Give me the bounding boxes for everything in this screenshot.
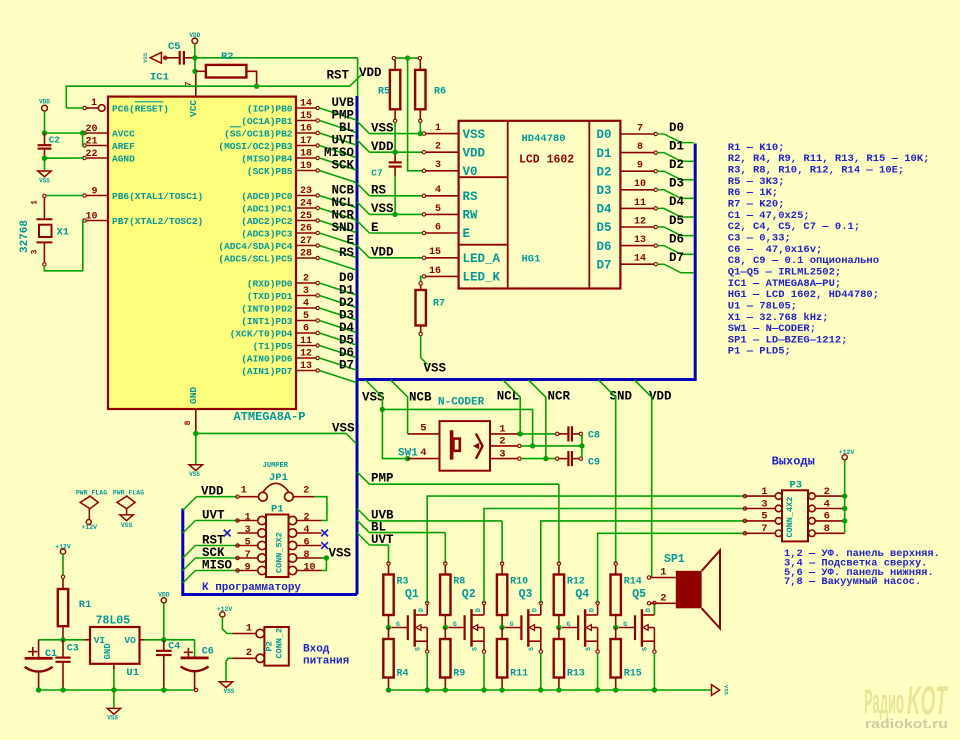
svg-text:GND: GND xyxy=(103,643,113,660)
svg-text:Выходы: Выходы xyxy=(772,454,815,468)
svg-text:(MOSI/OC2)PB3: (MOSI/OC2)PB3 xyxy=(218,141,292,152)
legend outputs text xyxy=(784,548,940,588)
svg-text:NCB: NCB xyxy=(409,391,432,405)
LCD right pin names D0-D7 xyxy=(597,128,613,272)
svg-text:D6: D6 xyxy=(597,240,612,254)
svg-text:R2, R4, R9, R11, R13, R15 — 10: R2, R4, R9, R11, R13, R15 — 10K; xyxy=(728,153,930,165)
svg-text:VSS: VSS xyxy=(371,121,394,135)
svg-text:D1: D1 xyxy=(597,147,612,161)
watermark RadioKOT xyxy=(864,679,949,731)
svg-text:(AIN0)PD6: (AIN0)PD6 xyxy=(241,353,293,364)
svg-text:(ICP)PB0: (ICP)PB0 xyxy=(247,103,293,114)
resistor R14 xyxy=(611,562,642,628)
svg-text:23: 23 xyxy=(300,186,312,197)
no-connect cross P1 pin3 xyxy=(224,530,231,537)
pin 17 stub and wire to label UVT xyxy=(296,136,356,158)
svg-text:(XCK/T0)PD4: (XCK/T0)PD4 xyxy=(230,328,293,339)
svg-text:D3: D3 xyxy=(597,184,612,198)
svg-text:4: 4 xyxy=(420,447,426,459)
svg-text:7: 7 xyxy=(245,550,251,561)
svg-text:9: 9 xyxy=(91,186,97,197)
P3 pin 4 right xyxy=(809,498,845,512)
svg-text:1: 1 xyxy=(761,486,767,498)
wire NCB to SW1 pin5 xyxy=(391,380,408,434)
svg-text:VSS: VSS xyxy=(463,128,486,142)
resistor R12 xyxy=(554,562,585,628)
jumper JP1 xyxy=(236,483,314,501)
svg-text:PWR_FLAG: PWR_FLAG xyxy=(113,490,144,497)
svg-text:N-CODER: N-CODER xyxy=(438,397,485,409)
svg-text:12: 12 xyxy=(300,348,312,359)
svg-text:G: G xyxy=(396,621,400,628)
svg-text:10: 10 xyxy=(634,179,646,190)
svg-text:32768: 32768 xyxy=(19,220,31,253)
svg-text:3: 3 xyxy=(303,286,309,297)
svg-text:D4: D4 xyxy=(597,203,613,217)
wire to ground below MCU xyxy=(195,433,197,464)
svg-text:D7: D7 xyxy=(669,251,684,265)
svg-text:9: 9 xyxy=(637,161,643,172)
svg-text:2: 2 xyxy=(303,486,309,497)
svg-text:VSS: VSS xyxy=(107,715,118,722)
wire VSS to SW1 pin2 row xyxy=(382,409,532,446)
wire SW1 pin1 to C8 xyxy=(521,433,556,435)
resistor R5 xyxy=(378,56,400,122)
svg-text:ATMEGA8A-P: ATMEGA8A-P xyxy=(234,410,306,424)
resistor R15 xyxy=(611,628,642,691)
svg-text:VSS: VSS xyxy=(329,546,352,560)
node gate junction Q3 xyxy=(499,625,504,630)
P1 pin 2 right xyxy=(288,512,321,524)
svg-text:VSS: VSS xyxy=(362,391,385,405)
svg-text:C4: C4 xyxy=(168,642,180,653)
svg-text:6: 6 xyxy=(304,537,310,548)
transistor Q1 xyxy=(392,588,429,653)
svg-text:Q1: Q1 xyxy=(405,588,419,601)
svg-text:CONN_5X2: CONN_5X2 xyxy=(275,532,285,573)
pin 4 stub and wire to label D2 xyxy=(296,298,356,320)
junction dots power rail xyxy=(36,687,167,692)
svg-text:PWR_FLAG: PWR_FLAG xyxy=(76,490,107,497)
wire V0 divider top rail xyxy=(395,57,418,59)
svg-text:RST: RST xyxy=(326,69,349,83)
svg-text:4: 4 xyxy=(303,298,309,309)
svg-text:VSS: VSS xyxy=(142,52,149,63)
wire +12V to R1 xyxy=(62,554,64,575)
svg-text:D0: D0 xyxy=(597,128,612,142)
SW1 pin 4 xyxy=(405,447,440,461)
wire MISO to P1 xyxy=(183,569,239,583)
P1 pin 10 right xyxy=(288,562,321,574)
pin 9 PB6 stub xyxy=(83,194,86,197)
svg-text:7,8 — Вакуумный насос.: 7,8 — Вакуумный насос. xyxy=(784,576,921,588)
svg-text:21: 21 xyxy=(85,136,97,147)
svg-text:VDD: VDD xyxy=(371,140,394,154)
svg-text:14: 14 xyxy=(300,98,312,109)
P2 pin 1 xyxy=(233,622,265,637)
resistor R9 xyxy=(440,628,465,691)
svg-text:LED_K: LED_K xyxy=(463,271,501,285)
svg-text:C3: C3 xyxy=(67,643,79,654)
ground VSS below P2 xyxy=(219,682,232,688)
svg-text:(ADC2)PC2: (ADC2)PC2 xyxy=(241,216,293,227)
svg-text:C8: C8 xyxy=(588,431,600,442)
svg-text:D: D xyxy=(588,608,595,612)
svg-text:MISO: MISO xyxy=(202,559,233,573)
capacitor C7 xyxy=(371,152,401,178)
pin 23 stub and wire to label NCB xyxy=(296,186,356,208)
P3 pin 3 left xyxy=(743,498,782,512)
svg-text:PB7(XTAL2/TOSC2): PB7(XTAL2/TOSC2) xyxy=(112,216,203,227)
wire to pin22 xyxy=(45,157,85,159)
svg-text:JUMPER: JUMPER xyxy=(263,462,289,470)
svg-text:(RXD)PD0: (RXD)PD0 xyxy=(247,278,293,289)
svg-text:V0: V0 xyxy=(463,165,478,179)
blue sheet box around N-CODER section xyxy=(357,144,695,380)
ground VSS below MCU xyxy=(189,465,202,471)
wire VDD symbol down xyxy=(163,603,165,640)
junction dots source rail xyxy=(386,687,657,692)
svg-text:R7 — K20;: R7 — K20; xyxy=(728,198,785,210)
svg-text:HD44780: HD44780 xyxy=(522,133,566,145)
LCD pin 14 stub and wire to label D7 xyxy=(620,254,693,273)
svg-text:16: 16 xyxy=(429,266,441,277)
pin 16 stub and wire to label BL xyxy=(296,123,356,145)
svg-text:VSS: VSS xyxy=(121,522,133,529)
svg-text:R13: R13 xyxy=(567,669,585,680)
svg-text:PC6(RESET): PC6(RESET) xyxy=(112,103,169,114)
svg-text:C9: C9 xyxy=(588,458,600,469)
wire to pin21 xyxy=(83,133,85,146)
pin 24 stub and wire to label NCL xyxy=(296,198,356,220)
svg-text:NCL: NCL xyxy=(497,389,520,403)
svg-text:6: 6 xyxy=(303,323,309,334)
svg-text:HG1 — LCD 1602, HD44780;: HG1 — LCD 1602, HD44780; xyxy=(728,289,879,301)
capacitor C2 xyxy=(38,133,61,158)
no-connect cross P1 pin6 xyxy=(321,542,328,549)
LCD pin 8 stub and wire to label D1 xyxy=(620,142,693,161)
node R1-C3-VI junction xyxy=(60,637,65,642)
node C7-VSS junction xyxy=(392,212,397,217)
svg-text:C2: C2 xyxy=(49,135,61,146)
svg-text:RS: RS xyxy=(463,190,479,204)
LCD pin 6 wire/label xyxy=(357,221,459,235)
power flag PWR_FLAG VSS xyxy=(113,490,144,530)
wire SW1 pin2 to caps xyxy=(521,445,581,447)
svg-text:SP1 — LD—BZEG—1212;: SP1 — LD—BZEG—1212; xyxy=(728,334,848,346)
svg-text:VSS: VSS xyxy=(224,688,235,695)
svg-text:14: 14 xyxy=(634,254,646,265)
encoder SW1 body xyxy=(440,421,491,471)
crystal X1 xyxy=(19,194,69,266)
svg-text:Q1—Q5 — IRLML2502;: Q1—Q5 — IRLML2502; xyxy=(728,266,841,278)
svg-text:IC1: IC1 xyxy=(150,72,169,84)
resistor R6 xyxy=(415,56,446,122)
svg-text:D2: D2 xyxy=(597,165,612,179)
svg-text:AREF: AREF xyxy=(112,141,135,152)
wire drain Q3 to P3 pin5 xyxy=(541,521,745,603)
svg-text:R12: R12 xyxy=(567,577,585,588)
SP1 pin 1 xyxy=(647,567,676,580)
transistor Q2 xyxy=(448,588,485,653)
net flag VSS arrow at C5 xyxy=(150,52,161,63)
svg-text:VCC: VCC xyxy=(188,100,199,117)
wire JP1 pin2 to P1 pin2 xyxy=(314,497,327,521)
P1 pin 7 left xyxy=(238,550,267,562)
pin 18 stub and wire to label MISO xyxy=(296,148,356,170)
svg-text:R4: R4 xyxy=(397,669,409,680)
svg-text:VSS: VSS xyxy=(189,471,200,478)
svg-text:S: S xyxy=(471,647,478,651)
svg-text:C6 — 47,0x16v;: C6 — 47,0x16v; xyxy=(728,244,823,256)
svg-text:2: 2 xyxy=(824,486,830,498)
pin 11 stub and wire to label D5 xyxy=(296,336,356,358)
svg-text:VO: VO xyxy=(124,635,136,646)
svg-text:D1: D1 xyxy=(669,139,684,153)
wire VSS below MCU xyxy=(196,432,346,434)
svg-text:7: 7 xyxy=(637,123,643,134)
wire RST net xyxy=(66,86,350,108)
wire R7 to VSS label xyxy=(420,335,422,357)
svg-text:(ADC4/SDA)PC4: (ADC4/SDA)PC4 xyxy=(218,241,292,252)
wire VDD to JP1 pin1 xyxy=(197,496,238,498)
node AGND junction xyxy=(42,156,47,161)
LCD inner divider right xyxy=(588,121,590,289)
svg-text:UVT: UVT xyxy=(202,509,225,523)
P1 pin 6 right xyxy=(288,537,321,549)
svg-text:2: 2 xyxy=(435,142,441,153)
wire source ground rail xyxy=(389,689,712,691)
svg-text:P1 — PLD5;: P1 — PLD5; xyxy=(728,346,791,358)
svg-text:SP1: SP1 xyxy=(664,553,685,566)
wire SND to R14 xyxy=(599,380,616,563)
P1 pin 3 left xyxy=(238,525,267,537)
wire drain Q5 to SP1 pin2 xyxy=(653,603,655,615)
svg-text:LED_A: LED_A xyxy=(463,252,501,266)
svg-text:78L05: 78L05 xyxy=(96,614,131,627)
svg-text:1: 1 xyxy=(91,98,97,109)
wire C1 to VI rail xyxy=(39,639,85,641)
svg-text:8: 8 xyxy=(304,550,310,561)
capacitor C1 electrolytic xyxy=(25,640,57,690)
P3 pin 1 left xyxy=(743,486,782,500)
svg-text:R1: R1 xyxy=(79,599,92,611)
svg-text:3: 3 xyxy=(499,448,505,460)
pin 5 stub and wire to label D3 xyxy=(296,311,356,333)
pin 8 GND stub xyxy=(195,409,197,432)
pin 7 VCC stub xyxy=(195,71,197,96)
resistor R1 xyxy=(58,575,92,640)
svg-text:(ADC0)PC0: (ADC0)PC0 xyxy=(241,191,293,202)
pin 10 PB7 stub xyxy=(83,219,86,222)
svg-text:D3: D3 xyxy=(669,177,684,191)
wire C7 bottom to RW row xyxy=(394,177,396,215)
svg-text:Вход: Вход xyxy=(303,644,330,656)
svg-text:C2, C4, C5, C7 — 0.1;: C2, C4, C5, C7 — 0.1; xyxy=(728,221,860,233)
svg-text:VDD: VDD xyxy=(39,99,50,106)
resistor R13 xyxy=(554,628,585,691)
svg-text:9: 9 xyxy=(245,562,251,573)
P3 pin 5 left xyxy=(743,511,782,525)
svg-text:D: D xyxy=(532,608,539,612)
svg-text:R10: R10 xyxy=(510,577,528,588)
node GND junction below MCU xyxy=(193,431,198,436)
svg-text:8: 8 xyxy=(637,142,643,153)
svg-text:D7: D7 xyxy=(597,258,612,272)
svg-text:(INT1)PD3: (INT1)PD3 xyxy=(241,316,293,327)
svg-text:13: 13 xyxy=(300,361,312,372)
svg-text:E: E xyxy=(463,227,471,241)
svg-text:1: 1 xyxy=(660,567,666,579)
svg-text:X1 — 32.768 kHz;: X1 — 32.768 kHz; xyxy=(728,312,829,324)
LCD pin 7 stub and wire to label D0 xyxy=(620,123,693,142)
svg-text:(ADC1)PC1: (ADC1)PC1 xyxy=(241,203,293,214)
node gate junction Q2 xyxy=(443,625,448,630)
wire drain Q4 to P3 pin7 xyxy=(598,533,745,603)
resistor R7 xyxy=(416,282,446,336)
svg-text:(SCK)PB5: (SCK)PB5 xyxy=(247,166,293,177)
capacitor C4 xyxy=(156,640,180,690)
svg-text:NCR: NCR xyxy=(548,389,571,403)
svg-text:16: 16 xyxy=(300,123,312,134)
svg-text:S: S xyxy=(415,647,422,651)
wire +12V rail at P3 xyxy=(844,460,846,533)
wire VDD rail to bus corner xyxy=(195,57,358,59)
svg-text:D7: D7 xyxy=(339,359,354,373)
node R2 left junction xyxy=(192,69,197,74)
svg-text:AVCC: AVCC xyxy=(112,128,135,139)
transistor Q4 xyxy=(562,588,599,653)
svg-text:U1: U1 xyxy=(126,667,139,679)
svg-text:8: 8 xyxy=(824,523,830,535)
transistor Q5 xyxy=(619,588,656,653)
svg-text:+12V: +12V xyxy=(81,524,97,531)
LCD pin 13 stub and wire to label D6 xyxy=(620,235,693,254)
svg-text:SCK: SCK xyxy=(331,159,354,173)
P3 pin 6 right xyxy=(809,511,845,525)
wire V0 vertical xyxy=(408,58,423,171)
svg-text:VSS: VSS xyxy=(39,178,50,185)
SW1 pin 3 xyxy=(490,448,521,460)
svg-text:7: 7 xyxy=(761,523,767,535)
svg-text:5: 5 xyxy=(420,422,426,434)
svg-text:5: 5 xyxy=(761,511,767,523)
SW1 pin 2 xyxy=(490,436,521,448)
LCD pin 9 stub and wire to label D2 xyxy=(620,161,693,180)
svg-text:(T1)PD5: (T1)PD5 xyxy=(253,341,293,352)
net flag VSS arrow at rail xyxy=(712,685,720,696)
capacitor C6 electrolytic xyxy=(181,640,214,690)
svg-text:C7: C7 xyxy=(371,168,383,179)
svg-text:D: D xyxy=(645,608,652,612)
junction dots P3 rail xyxy=(842,493,847,523)
svg-text:1: 1 xyxy=(435,123,441,134)
svg-text:19: 19 xyxy=(300,161,312,172)
svg-text:GND: GND xyxy=(188,387,199,404)
pin 27 stub and wire to label E xyxy=(296,236,356,258)
svg-text:D0: D0 xyxy=(669,121,684,135)
node VSS-pin2 junction xyxy=(530,443,535,448)
U1 pin names xyxy=(94,635,136,660)
svg-text:1: 1 xyxy=(245,512,251,523)
svg-text:S: S xyxy=(642,647,649,651)
wire ground rail power section xyxy=(39,689,195,691)
svg-text:2: 2 xyxy=(303,273,309,284)
LCD pin 2 wire/label xyxy=(357,140,459,154)
svg-text:(ADC3)PC3: (ADC3)PC3 xyxy=(241,228,293,239)
pin 2 stub and wire to label D0 xyxy=(296,273,356,295)
node AVCC junction xyxy=(42,130,47,135)
svg-text:AGND: AGND xyxy=(112,153,135,164)
LCD pin 15 wire/label xyxy=(357,245,459,259)
svg-text:C6: C6 xyxy=(202,647,214,658)
regulator U1 78L05 body xyxy=(90,627,140,664)
svg-text:4: 4 xyxy=(435,185,441,196)
svg-text:C8, C9 — 0.1 опционально: C8, C9 — 0.1 опционально xyxy=(728,255,879,267)
P1 pin 8 right xyxy=(288,550,321,562)
svg-text:(MISO)PB4: (MISO)PB4 xyxy=(241,153,293,164)
wire to ground xyxy=(44,158,46,171)
svg-text:E: E xyxy=(371,221,379,235)
U1 VI stub xyxy=(84,639,90,641)
wire VDD to SP1 pin1 xyxy=(635,380,652,578)
LCD pin 12 stub and wire to label D5 xyxy=(620,216,693,235)
svg-text:5: 5 xyxy=(303,311,309,322)
svg-text:3: 3 xyxy=(435,160,441,171)
svg-text:G: G xyxy=(510,621,514,628)
svg-text:R8: R8 xyxy=(453,577,465,588)
pin 19 stub and wire to label SCK xyxy=(296,161,356,183)
wire RST to P1 xyxy=(183,544,239,558)
svg-text:11: 11 xyxy=(634,198,646,209)
connector P1 body xyxy=(266,515,289,578)
power flag PWR_FLAG +12V xyxy=(76,490,107,532)
wire VSS ncoder xyxy=(366,380,383,409)
P3 pin 2 right xyxy=(809,486,845,500)
svg-text:17: 17 xyxy=(300,136,312,147)
P3 pin 7 left xyxy=(743,523,782,537)
wire C8-C9 right link xyxy=(581,434,583,459)
svg-text:2: 2 xyxy=(660,593,666,605)
svg-text:D5: D5 xyxy=(669,214,684,228)
svg-text:VSS: VSS xyxy=(332,421,355,435)
P1 pin 5 left xyxy=(238,537,267,549)
wire drain Q2 to P3 pin3 xyxy=(484,509,745,604)
svg-text:R3, R8, R10, R12, R14 — 10E;: R3, R8, R10, R12, R14 — 10E; xyxy=(728,164,904,176)
wire NCL xyxy=(503,380,520,434)
node gate junction Q1 xyxy=(386,625,391,630)
svg-text:R14: R14 xyxy=(624,577,642,588)
encoder SW1 symbol xyxy=(450,430,483,459)
wire RST to pin1 xyxy=(66,107,84,109)
svg-text:CONN_4X2: CONN_4X2 xyxy=(785,497,795,538)
svg-text:S: S xyxy=(585,647,592,651)
node VSS ncoder junction xyxy=(380,407,385,412)
U1 VO stub xyxy=(140,639,145,641)
svg-text:D4: D4 xyxy=(669,195,685,209)
svg-text:(OC1A)PB1: (OC1A)PB1 xyxy=(241,116,293,127)
svg-text:Q4: Q4 xyxy=(575,588,589,601)
notes parts list text xyxy=(728,142,930,358)
svg-text:R11: R11 xyxy=(510,669,528,680)
blue sheet box vertical bus line xyxy=(356,96,359,595)
pin 3 stub and wire to label D1 xyxy=(296,286,356,308)
connector P3 body xyxy=(782,490,808,541)
resistor R8 xyxy=(440,562,465,628)
svg-text:К программатору: К программатору xyxy=(202,582,301,594)
svg-text:IC1 — ATMEGA8A—PU;: IC1 — ATMEGA8A—PU; xyxy=(728,278,841,290)
LCD pin 5 wire/label xyxy=(357,202,459,216)
